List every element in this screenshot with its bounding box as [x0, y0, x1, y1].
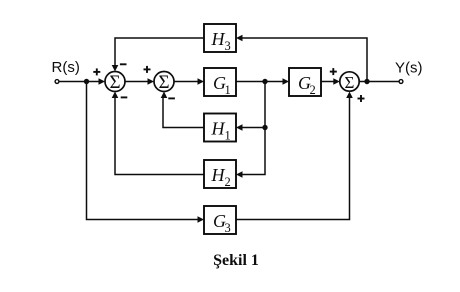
svg-text:2: 2 [310, 83, 316, 97]
block H1 [204, 114, 236, 142]
svg-text:Y(s): Y(s) [395, 60, 423, 77]
block G3 [204, 206, 236, 234]
block H3 [204, 24, 236, 52]
sign plus at S1 left [93, 71, 100, 73]
wire input to summer S1 [59, 81, 101, 83]
wire H3 to S1 top [115, 38, 204, 67]
arrowhead into S3 left [333, 78, 340, 85]
arrowhead into S2 left [148, 78, 155, 85]
svg-text:H: H [211, 119, 226, 139]
svg-text:Σ: Σ [158, 72, 169, 93]
svg-text:Şekil 1: Şekil 1 [213, 252, 259, 269]
svg-text:R(s): R(s) [52, 59, 80, 76]
wire S2 to G1 [174, 81, 200, 83]
wire branch node down to H1 [240, 82, 265, 128]
svg-text:1: 1 [225, 129, 231, 143]
wire output node up and left to H3 [240, 38, 367, 82]
arrowhead into G3 [198, 216, 205, 223]
arrowhead into G2 [283, 78, 290, 85]
arrowhead into S3 bottom [346, 92, 353, 99]
wire H1 to S2 bottom [163, 96, 204, 128]
summer S1 [105, 72, 125, 92]
svg-text:Σ: Σ [109, 72, 120, 93]
junction dot at H1 branch [262, 125, 267, 130]
arrowhead into G1 [198, 78, 205, 85]
block G1 [204, 68, 236, 96]
sign minus at S1 bottom [121, 96, 128, 98]
svg-text:H: H [211, 29, 226, 49]
block G2 [289, 68, 321, 96]
wire S3 to output [359, 81, 399, 83]
arrowhead into S1 bottom [112, 92, 119, 99]
svg-text:3: 3 [225, 39, 231, 53]
input terminal [55, 80, 59, 84]
wire H1 node down to H2 [240, 128, 265, 175]
block H2 [204, 160, 236, 188]
svg-text:Σ: Σ [345, 73, 355, 92]
wire G2 to summer S3 [321, 81, 336, 83]
sign minus at S2 bottom [168, 97, 175, 99]
arrowhead into S2 bottom [161, 92, 168, 99]
arrowhead into S1 left [99, 78, 106, 85]
arrowhead into H2 [236, 171, 243, 178]
output terminal [399, 80, 403, 84]
arrowhead into S1 top [112, 65, 119, 72]
summer S2 [154, 72, 174, 92]
sign minus at S1 top [120, 63, 127, 65]
sign plus at S3 bottom [358, 98, 365, 100]
wire G1 to G2 [236, 81, 285, 83]
svg-text:1: 1 [225, 83, 231, 97]
summer S3 [340, 72, 359, 91]
junction dot after S3 [364, 79, 369, 84]
arrowhead into H1 [236, 124, 243, 131]
wire S1 to S2 [125, 81, 150, 83]
junction dot after input [84, 79, 89, 84]
junction dot between G1 G2 [262, 79, 267, 84]
svg-text:H: H [211, 165, 226, 185]
wire input node down to G3 [87, 82, 201, 220]
sign plus at S3 left [330, 71, 337, 73]
sign plus at S2 left [144, 68, 151, 70]
wire H2 to S1 bottom [115, 96, 204, 175]
svg-text:2: 2 [225, 175, 231, 189]
arrowhead into H3 [236, 35, 243, 42]
svg-text:3: 3 [225, 221, 231, 235]
wire G3 to S3 bottom [236, 95, 350, 220]
